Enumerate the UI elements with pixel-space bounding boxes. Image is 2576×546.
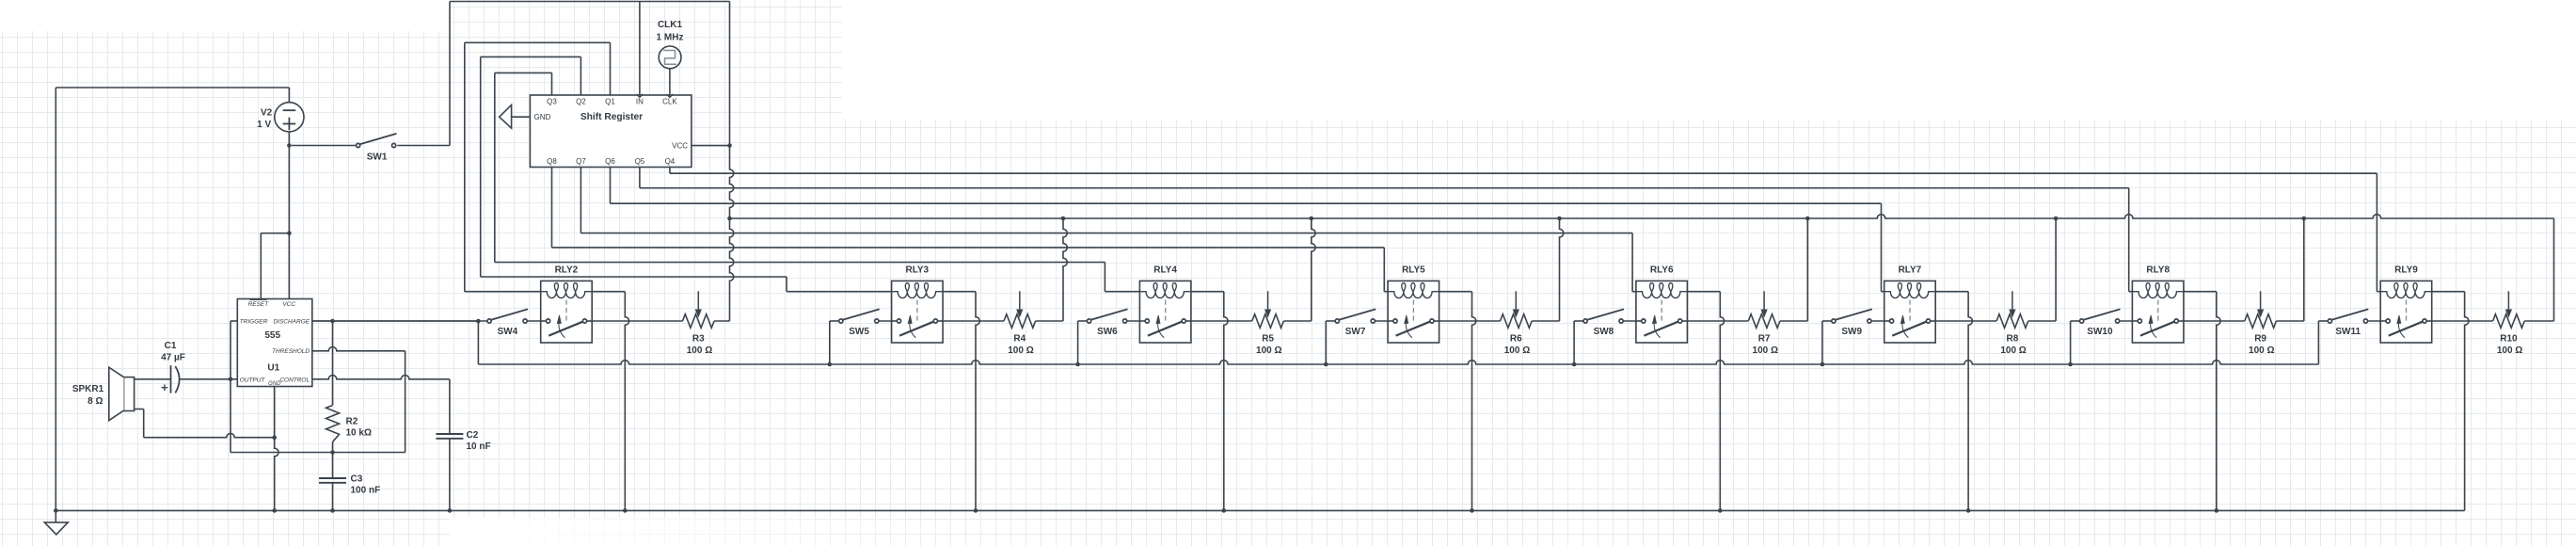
svg-text:555: 555 — [264, 330, 280, 341]
svg-text:Q2: Q2 — [576, 97, 586, 105]
svg-text:100 Ω: 100 Ω — [1256, 345, 1281, 356]
svg-text:SPKR1: SPKR1 — [72, 384, 104, 394]
svg-text:RLY5: RLY5 — [1402, 265, 1425, 275]
svg-text:CLK: CLK — [662, 97, 677, 105]
svg-text:RLY8: RLY8 — [2146, 265, 2170, 275]
svg-text:RLY3: RLY3 — [905, 265, 929, 275]
svg-text:R9: R9 — [2254, 334, 2266, 345]
svg-text:100 Ω: 100 Ω — [1504, 345, 1530, 356]
svg-text:100 Ω: 100 Ω — [1008, 345, 1033, 356]
svg-text:R7: R7 — [1758, 334, 1771, 345]
svg-text:RESET: RESET — [248, 301, 270, 308]
svg-text:R10: R10 — [2500, 334, 2518, 345]
svg-text:R3: R3 — [692, 334, 705, 345]
svg-text:SW5: SW5 — [849, 327, 869, 337]
svg-text:100 Ω: 100 Ω — [687, 345, 712, 356]
svg-text:C3: C3 — [351, 474, 363, 485]
svg-text:R2: R2 — [346, 417, 358, 427]
svg-text:SW1: SW1 — [367, 152, 388, 162]
svg-text:10 nF: 10 nF — [467, 442, 491, 452]
svg-text:1 MHz: 1 MHz — [657, 33, 684, 43]
svg-text:CLK1: CLK1 — [658, 20, 683, 30]
svg-text:VCC: VCC — [282, 301, 295, 308]
svg-text:TRIGGER: TRIGGER — [240, 319, 268, 326]
svg-text:100 nF: 100 nF — [351, 486, 381, 496]
svg-text:100 Ω: 100 Ω — [2000, 345, 2026, 356]
svg-text:GND: GND — [268, 381, 281, 387]
svg-text:SW9: SW9 — [1841, 327, 1862, 337]
svg-text:100 Ω: 100 Ω — [2497, 345, 2522, 356]
svg-text:100 Ω: 100 Ω — [1753, 345, 1778, 356]
svg-text:Q7: Q7 — [576, 157, 586, 166]
svg-text:SW8: SW8 — [1594, 327, 1614, 337]
svg-text:RLY4: RLY4 — [1153, 265, 1177, 275]
svg-text:Q5: Q5 — [635, 157, 645, 166]
svg-text:Q6: Q6 — [605, 157, 615, 166]
svg-text:1 V: 1 V — [257, 120, 271, 130]
svg-text:R5: R5 — [1262, 334, 1274, 345]
svg-text:U1: U1 — [267, 362, 279, 373]
svg-text:100 Ω: 100 Ω — [2249, 345, 2274, 356]
svg-text:R4: R4 — [1013, 334, 1026, 345]
svg-text:SW7: SW7 — [1345, 327, 1366, 337]
svg-text:IN: IN — [636, 97, 644, 105]
svg-text:R6: R6 — [1510, 334, 1522, 345]
svg-text:V2: V2 — [261, 108, 273, 119]
svg-text:RLY6: RLY6 — [1650, 265, 1674, 275]
svg-text:SW11: SW11 — [2335, 327, 2361, 337]
svg-text:CONTROL: CONTROL — [279, 377, 310, 383]
svg-text:RLY9: RLY9 — [2394, 265, 2418, 275]
svg-text:GND: GND — [534, 113, 551, 121]
svg-text:SW6: SW6 — [1097, 327, 1118, 337]
svg-text:C2: C2 — [467, 430, 479, 441]
svg-text:THRESHOLD: THRESHOLD — [272, 348, 310, 355]
svg-text:47 µF: 47 µF — [161, 352, 185, 362]
svg-text:Q3: Q3 — [547, 97, 557, 105]
svg-text:RLY2: RLY2 — [555, 265, 579, 275]
svg-text:Shift Register: Shift Register — [580, 112, 643, 122]
svg-text:RLY7: RLY7 — [1899, 265, 1922, 275]
svg-text:DISCHARGE: DISCHARGE — [273, 319, 310, 326]
svg-text:OUTPUT: OUTPUT — [240, 377, 266, 383]
svg-text:R8: R8 — [2007, 334, 2019, 345]
svg-text:VCC: VCC — [672, 141, 688, 150]
svg-text:C1: C1 — [165, 341, 177, 351]
svg-text:8 Ω: 8 Ω — [87, 396, 103, 407]
svg-text:Q1: Q1 — [605, 97, 615, 105]
svg-text:Q4: Q4 — [665, 157, 676, 166]
svg-text:SW4: SW4 — [498, 327, 518, 337]
svg-text:SW10: SW10 — [2087, 327, 2113, 337]
svg-text:Q8: Q8 — [547, 157, 557, 166]
svg-text:10 kΩ: 10 kΩ — [346, 428, 372, 439]
